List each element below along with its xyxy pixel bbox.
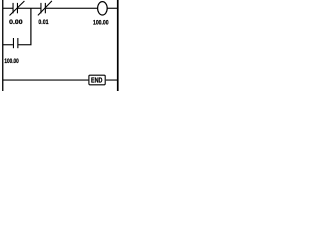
wire rung1 left segment	[3, 8, 13, 9]
background	[0, 0, 122, 91]
contact C2 NC right bar	[45, 3, 46, 13]
wire rung1 between contacts	[18, 8, 41, 9]
instruction box END	[89, 75, 105, 85]
wire branch right segment	[18, 44, 31, 45]
contact C3 NO left bar	[13, 38, 14, 48]
contact C1 NC slash	[10, 1, 25, 16]
wire rung2 left segment	[3, 80, 88, 81]
svg-text:0.00: 0.00	[9, 19, 23, 26]
contact C2 NC left bar	[40, 3, 41, 13]
contact C1 NC right bar	[17, 3, 18, 13]
left power rail	[2, 0, 3, 91]
right power rail	[117, 0, 119, 91]
svg-text:100.00: 100.00	[4, 58, 19, 65]
wire rung2 right segment	[106, 80, 117, 81]
contact C1 NC left bar	[13, 3, 14, 13]
branch up-connector wire	[30, 8, 31, 45]
contact C3 NO right bar	[17, 38, 18, 48]
contact C2 NC slash	[38, 1, 52, 16]
wire rung1 to coil	[46, 8, 98, 9]
wire branch left segment	[3, 44, 13, 45]
svg-text:0.01: 0.01	[38, 19, 49, 26]
svg-text:100.00: 100.00	[93, 20, 109, 27]
svg-text:END: END	[91, 76, 103, 85]
coil O1	[98, 2, 108, 15]
wire coil to right rail	[107, 8, 117, 9]
